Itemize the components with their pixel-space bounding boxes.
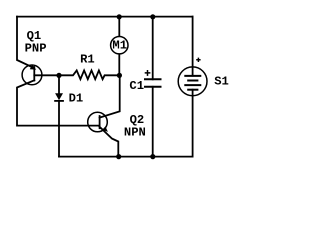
svg-text:D1: D1 (69, 92, 84, 106)
svg-text:PNP: PNP (25, 41, 47, 55)
svg-text:M1: M1 (112, 39, 127, 53)
svg-text:R1: R1 (80, 52, 95, 66)
svg-text:S1: S1 (214, 75, 229, 89)
svg-text:NPN: NPN (124, 126, 146, 140)
svg-text:C1: C1 (129, 79, 144, 93)
